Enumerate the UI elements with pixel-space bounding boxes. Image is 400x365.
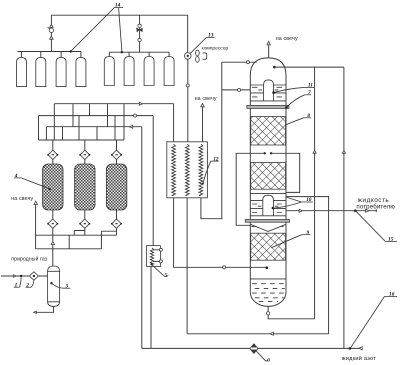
- wire dome overhead line: [274, 66, 344, 68]
- vent arrow above exchanger: [201, 104, 205, 107]
- crossing circle at dome inlet: [246, 61, 249, 64]
- heater V5 coil: [150, 248, 153, 265]
- wire heater V5 drop to bottom line: [150, 267, 152, 349]
- heater V5: [147, 246, 161, 267]
- label 10: [301, 197, 313, 203]
- wire bus B drop to heater: [152, 116, 154, 246]
- label 2: [25, 282, 31, 288]
- compressor fan blades: [196, 50, 200, 62]
- wire bypass loop right: [271, 153, 300, 192]
- label 7: [305, 90, 312, 96]
- leader label 14 to left header: [71, 8, 115, 52]
- text жидкий азот: [342, 355, 376, 362]
- wire compressor return line: [187, 333, 329, 335]
- mid tray top line: [250, 192, 286, 194]
- junction dot top tray: [272, 91, 275, 94]
- flow arrow on bus C: [129, 125, 132, 128]
- exchanger channel left coil: [172, 144, 176, 195]
- leader label 3: [52, 283, 65, 288]
- label 12: [211, 156, 219, 162]
- flow arrow liquid product 2: [366, 209, 369, 212]
- wire lower manifold jog 1: [74, 231, 85, 236]
- junction dot inlet: [20, 275, 22, 277]
- svg-text:компрессор: компрессор: [202, 46, 229, 51]
- wire bypass loop left: [236, 153, 265, 225]
- adsorber A2: [75, 164, 95, 210]
- text на свечу middle: [195, 96, 217, 102]
- flange band middle: [245, 220, 289, 223]
- cylinder B6: [124, 57, 134, 86]
- junction dot liquid nitrogen: [349, 347, 352, 350]
- label 15: [385, 237, 397, 243]
- cylinder B7: [144, 57, 154, 86]
- valve adsorber 1 top (diamond): [47, 150, 58, 159]
- mid tray riser tube: [263, 195, 274, 216]
- heat exchanger E12 shell: [167, 142, 208, 198]
- leader label 15: [356, 211, 386, 241]
- wire feed line exchanger to column: [174, 198, 266, 267]
- leader label 14 to right header: [119, 8, 122, 52]
- leader label 8: [271, 118, 304, 131]
- junction dot liquid product: [354, 209, 357, 212]
- wire bus C drop to bottom line: [141, 127, 143, 349]
- text потребителю: [356, 203, 395, 210]
- flange band top: [247, 105, 289, 108]
- packing section middle: [251, 163, 286, 190]
- adsorber A1: [43, 164, 63, 210]
- leader label 13 to compressor: [190, 38, 207, 54]
- svg-text:5: 5: [165, 273, 168, 279]
- valve adsorber 3 top (diamond): [111, 150, 122, 159]
- wire compressor line to exchanger: [187, 87, 189, 142]
- text на свечу left: [11, 196, 33, 202]
- wire riser adsorber 3: [116, 228, 118, 235]
- label 16: [385, 292, 398, 298]
- wire right manifold riser: [139, 15, 141, 52]
- wire exchanger vent riser: [202, 107, 204, 142]
- wire manifold verticals: [39, 104, 125, 140]
- wire bus A drop to exchanger: [173, 104, 175, 142]
- packing section 8: [251, 116, 286, 145]
- leader label 2: [31, 280, 34, 287]
- leader label 5: [150, 263, 168, 276]
- wire compressor return drop: [186, 198, 188, 334]
- wire natural gas inlet: [1, 275, 48, 277]
- leader label 7: [287, 95, 304, 107]
- cylinder B4: [76, 57, 86, 86]
- svg-text:природный газ: природный газ: [11, 255, 47, 262]
- flow arrow right vertical outer: [342, 150, 345, 153]
- top tray riser tube: [264, 80, 274, 101]
- junction dot left header: [70, 50, 72, 52]
- flow arrow on riser 1: [51, 241, 54, 244]
- junction dot mid tray: [272, 207, 275, 210]
- mid tray liquid dashes: [252, 204, 282, 213]
- valve right lower (circle): [138, 38, 141, 41]
- drain circle: [266, 312, 269, 315]
- sump liquid level: [250, 278, 286, 280]
- wire cylinder necks left: [21, 52, 81, 59]
- crossing circle on bus B: [134, 114, 137, 117]
- label 6: [267, 357, 270, 363]
- exchanger channel right coil: [199, 144, 203, 195]
- wire compressor discharge down: [187, 59, 189, 84]
- cylinder B2: [36, 57, 46, 86]
- leader label 4 to adsorber A1: [22, 178, 51, 190]
- valve 2 (diamond): [29, 272, 38, 280]
- cylinder B3: [56, 57, 66, 86]
- wire left cylinder header: [18, 51, 81, 53]
- leader label 9: [271, 235, 301, 248]
- wire liquid nitrogen bottom line: [142, 347, 363, 349]
- svg-text:на свечу: на свечу: [195, 96, 217, 102]
- junction dot right header: [121, 51, 123, 53]
- svg-text:потребителю: потребителю: [356, 203, 395, 210]
- valve left regulator (circle): [49, 28, 53, 32]
- label 11: [304, 83, 314, 89]
- label 13: [206, 33, 214, 39]
- mid tray liquid lines: [250, 208, 286, 210]
- wire bus B: [39, 115, 154, 117]
- text на свечу column: [276, 36, 298, 42]
- drain arrow separator: [34, 311, 37, 313]
- wire top supply line to compressor: [51, 14, 187, 16]
- wire regeneration riser adsorber 1: [52, 228, 54, 266]
- svg-text:на свечу: на свечу: [11, 196, 33, 202]
- leader label 16: [351, 296, 385, 347]
- wire column bottom drain: [268, 306, 315, 318]
- leader label 12: [202, 161, 211, 184]
- wire lower manifold jog 2: [101, 231, 116, 249]
- valve right upper (circle): [138, 24, 141, 27]
- top tray floor: [250, 100, 286, 102]
- valve adsorber 1 bottom (diamond): [47, 219, 58, 228]
- wire liquid product line: [286, 209, 376, 212]
- flow arrow natural gas: [14, 275, 17, 277]
- svg-text:жидкий азот: жидкий азот: [342, 355, 376, 362]
- cylinder B8: [164, 57, 174, 86]
- cylinder B1: [17, 57, 27, 86]
- top tray chamber tops: [250, 84, 286, 86]
- label 9: [302, 230, 311, 236]
- wire right cylinder header: [109, 51, 169, 53]
- wire bus A: [54, 103, 173, 105]
- compressor motor bracket: [203, 53, 207, 59]
- wire right vertical outer: [343, 67, 345, 348]
- flow arrow liquid nitrogen: [359, 347, 362, 350]
- packing section 9: [251, 233, 286, 260]
- wire right vertical inner: [314, 67, 316, 319]
- column shell: [250, 58, 286, 307]
- leader label 6: [256, 351, 267, 361]
- sump liquid dashes: [252, 284, 285, 302]
- wire valve to adsorber necks: [53, 159, 117, 164]
- text природный газ: [11, 255, 47, 262]
- wire lower manifold vertical: [68, 235, 70, 249]
- mid tray floor: [250, 215, 286, 217]
- label 1: [14, 282, 20, 288]
- label 8: [304, 113, 312, 119]
- mid tray chamber tops: [250, 200, 286, 202]
- flow arrow right vertical inner: [313, 150, 316, 153]
- leader label 1: [20, 277, 21, 287]
- label 3: [64, 283, 70, 289]
- feed dot inside column: [266, 266, 269, 269]
- vent arrow column top: [267, 41, 270, 45]
- junction dot in dome: [273, 66, 276, 69]
- wire adsorber bottoms to valves: [53, 210, 117, 219]
- crossing circle on feed line: [223, 266, 226, 269]
- valve adsorber 2 bottom (diamond): [79, 219, 90, 228]
- flow arrow liquid product 1: [299, 209, 302, 212]
- label 4: [14, 173, 22, 179]
- wire left manifold riser: [50, 15, 52, 51]
- flow arrow on bus A: [139, 102, 142, 105]
- valve adsorber 2 top (diamond): [79, 150, 90, 159]
- text компрессор: [202, 46, 229, 51]
- valve right main (bowtie): [136, 28, 142, 32]
- wire cold vapor U-bend to dome: [201, 62, 257, 219]
- wire separator drain: [36, 306, 53, 312]
- label 5: [165, 273, 168, 279]
- separator V3: [48, 266, 60, 306]
- wire lower bus E: [36, 234, 117, 236]
- text жидкость: [358, 197, 390, 204]
- wire lower bus G: [36, 248, 102, 250]
- wire riser adsorber 2: [84, 228, 86, 235]
- cylinder B5: [104, 57, 114, 86]
- junction dots between packings: [264, 152, 273, 154]
- top tray liquid dashes: [252, 87, 282, 97]
- wire compressor drop from supply line: [187, 15, 189, 52]
- wire risers bus D to inlet valves: [53, 140, 117, 150]
- label 14: [114, 3, 123, 9]
- wire cylinder necks right: [109, 52, 169, 57]
- crossing circle on tray branch: [238, 88, 241, 91]
- svg-text:на свечу: на свечу: [276, 36, 298, 42]
- junction dot flange: [285, 106, 288, 109]
- exchanger channel middle coil: [185, 144, 189, 195]
- wire bus C: [46, 126, 141, 128]
- valve left shutoff (triangle): [50, 36, 54, 39]
- leader label 10 upper: [287, 197, 301, 202]
- valve adsorber 3 bottom (diamond): [111, 219, 122, 228]
- heater V5 ports: [153, 248, 162, 263]
- wire column vent: [268, 45, 270, 58]
- valve 6 (diamond with seat): [250, 344, 258, 354]
- wire vent riser: [35, 205, 37, 249]
- wire vapor return from mid tray: [286, 197, 329, 334]
- leader label 10 lower: [275, 202, 302, 208]
- distributor funnel below mid flange: [250, 224, 286, 231]
- vent arrow (na svechu left): [34, 201, 38, 204]
- junction dot separator: [50, 282, 52, 284]
- top tray liquid lines: [250, 92, 286, 94]
- leader label 11: [275, 87, 304, 92]
- wire branch to top tray: [222, 89, 251, 91]
- adsorber A3: [106, 164, 126, 210]
- crossing circle on compressor line: [186, 84, 189, 87]
- flow arrow on return line: [270, 332, 273, 335]
- wire bus D: [39, 139, 125, 141]
- compressor U13 (circle with hub): [185, 53, 192, 60]
- valve left reducer (triangle): [48, 24, 54, 29]
